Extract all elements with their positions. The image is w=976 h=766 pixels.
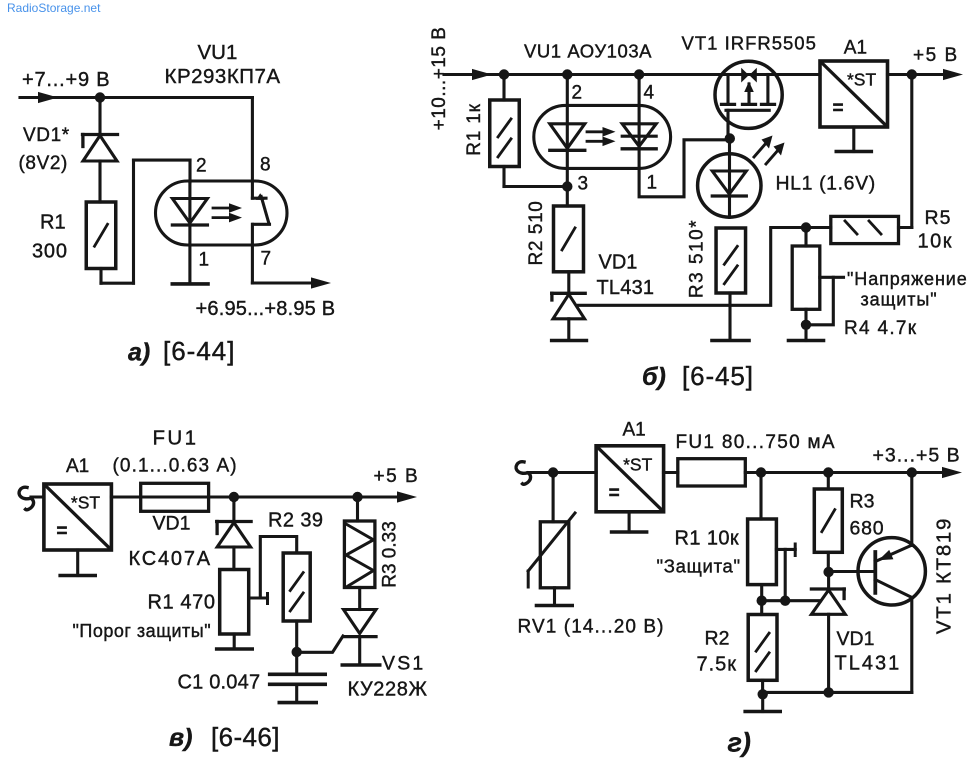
svg-text:+6.95...+8.95 В: +6.95...+8.95 В <box>196 298 336 320</box>
svg-text:8: 8 <box>260 155 271 176</box>
svg-text:[6-45]: [6-45] <box>682 361 754 391</box>
svg-text:*ST: *ST <box>623 454 652 474</box>
svg-text:A1: A1 <box>623 420 646 441</box>
svg-text:КС407А: КС407А <box>129 548 212 570</box>
svg-text:R3: R3 <box>850 491 875 513</box>
svg-text:R3 510*: R3 510* <box>687 219 708 298</box>
svg-text:HL1 (1.6V): HL1 (1.6V) <box>776 173 876 195</box>
svg-text:VU1: VU1 <box>198 41 238 64</box>
svg-text:VD1: VD1 <box>599 252 638 274</box>
svg-text:[6-46]: [6-46] <box>211 722 280 752</box>
svg-text:C1 0.047: C1 0.047 <box>178 672 261 694</box>
svg-text:R1 10к: R1 10к <box>675 528 740 550</box>
svg-text:1: 1 <box>647 173 658 194</box>
svg-text:*ST: *ST <box>71 493 100 513</box>
svg-text:VT1 КТ819: VT1 КТ819 <box>932 517 955 634</box>
svg-text:VU1 АОУ103А: VU1 АОУ103А <box>524 41 652 62</box>
svg-text:VT1 IRFR5505: VT1 IRFR5505 <box>682 33 817 54</box>
svg-text:+3...+5 В: +3...+5 В <box>873 445 961 467</box>
svg-text:КР293КП7А: КР293КП7А <box>165 65 281 88</box>
svg-text:б): б) <box>642 363 666 391</box>
svg-text:*ST: *ST <box>847 70 876 90</box>
svg-text:680: 680 <box>850 518 885 540</box>
svg-text:г): г) <box>728 728 751 758</box>
svg-text:R5: R5 <box>925 207 952 229</box>
svg-text:VD1*: VD1* <box>23 125 70 146</box>
svg-text:FU1: FU1 <box>153 427 199 450</box>
svg-text:R4 4.7к: R4 4.7к <box>844 318 917 339</box>
svg-text:TL431: TL431 <box>597 277 655 299</box>
svg-text:A1: A1 <box>66 456 89 477</box>
svg-text:7: 7 <box>261 249 272 270</box>
svg-text:+10...+15 В: +10...+15 В <box>429 27 450 131</box>
svg-text:3: 3 <box>578 174 589 195</box>
svg-text:+5 В: +5 В <box>374 466 420 487</box>
svg-text:300: 300 <box>32 241 68 263</box>
svg-text:2: 2 <box>196 156 207 177</box>
svg-text:R2 39: R2 39 <box>268 510 323 532</box>
svg-text:2: 2 <box>572 83 583 104</box>
svg-text:R3 0.33: R3 0.33 <box>380 521 401 588</box>
svg-text:в): в) <box>169 724 192 752</box>
svg-text:(8V2): (8V2) <box>19 153 68 174</box>
svg-text:+5 В: +5 В <box>913 45 959 66</box>
svg-text:"Порог защиты": "Порог защиты" <box>73 621 212 641</box>
svg-text:=: = <box>832 98 843 119</box>
svg-text:(0.1...0.63 А): (0.1...0.63 А) <box>113 456 238 477</box>
svg-text:VS1: VS1 <box>382 653 425 675</box>
svg-text:R1 470: R1 470 <box>148 592 216 614</box>
svg-text:R1 1к: R1 1к <box>464 103 485 155</box>
svg-text:"Защита": "Защита" <box>657 556 741 577</box>
svg-text:=: = <box>56 521 67 542</box>
svg-text:"Напряжение: "Напряжение <box>847 269 968 289</box>
svg-text:R2 510: R2 510 <box>526 201 547 266</box>
svg-text:[6-44]: [6-44] <box>163 336 236 366</box>
svg-text:10к: 10к <box>918 231 954 253</box>
svg-text:VD1: VD1 <box>153 513 191 535</box>
svg-text:7.5к: 7.5к <box>697 654 738 676</box>
svg-text:1: 1 <box>199 250 210 271</box>
svg-text:R2: R2 <box>705 628 730 650</box>
svg-text:A1: A1 <box>844 38 867 59</box>
svg-text:+7...+9 В: +7...+9 В <box>22 69 110 91</box>
svg-text:КУ228Ж: КУ228Ж <box>348 679 428 701</box>
svg-text:RV1 (14...20 В): RV1 (14...20 В) <box>518 617 665 638</box>
svg-text:=: = <box>609 483 620 504</box>
svg-text:а): а) <box>128 339 150 367</box>
svg-text:R1: R1 <box>40 212 66 234</box>
svg-text:защиты": защиты" <box>861 290 938 310</box>
svg-text:4: 4 <box>644 83 655 104</box>
svg-text:FU1 80...750 мА: FU1 80...750 мА <box>676 432 836 453</box>
svg-text:TL431: TL431 <box>835 653 902 675</box>
svg-text:VD1: VD1 <box>837 628 875 650</box>
